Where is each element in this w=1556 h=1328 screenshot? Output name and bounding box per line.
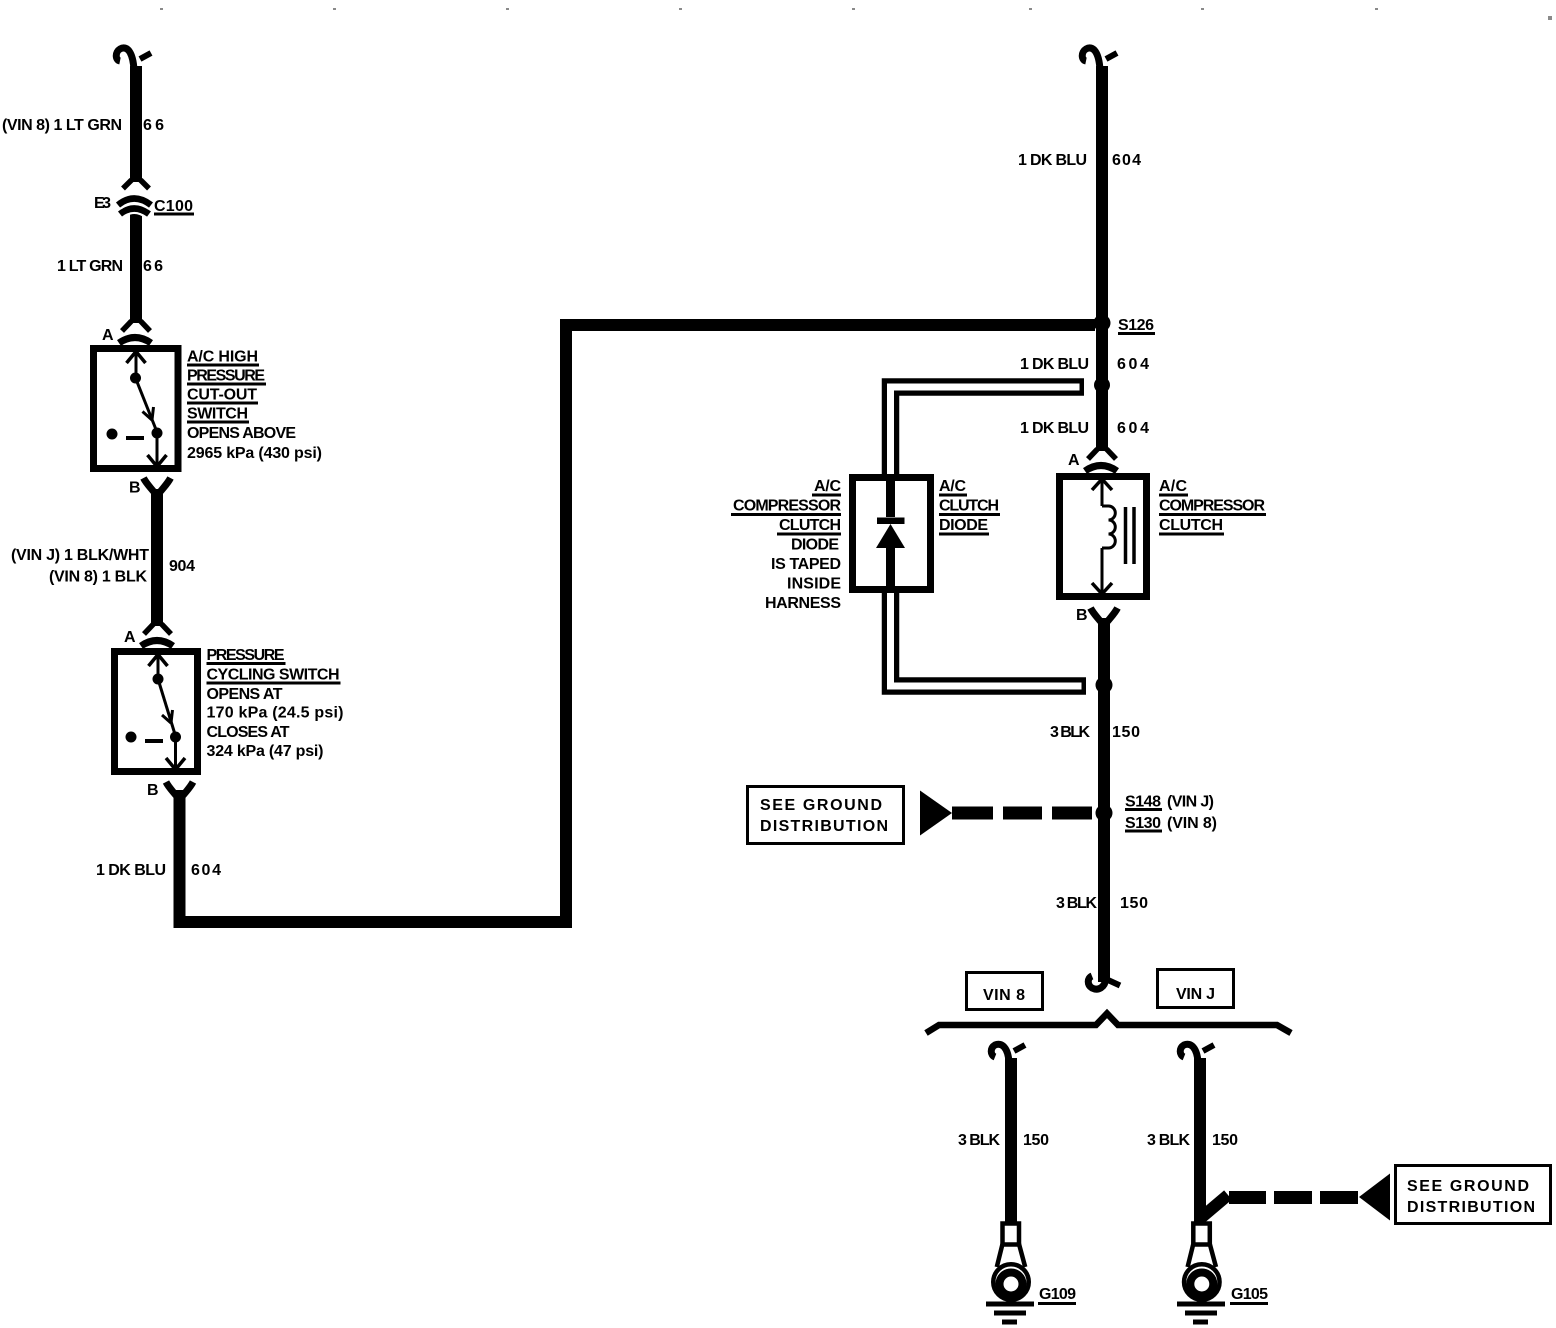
- svg-text:CLUTCH: CLUTCH: [779, 517, 841, 534]
- svg-text:604: 604: [1117, 420, 1149, 437]
- svg-text:3 BLK: 3 BLK: [1050, 724, 1090, 741]
- svg-text:(VIN 8) 1 LT GRN: (VIN 8) 1 LT GRN: [2, 117, 122, 134]
- svg-text:SEE GROUND: SEE GROUND: [760, 797, 882, 814]
- svg-text:OPENS ABOVE: OPENS ABOVE: [187, 425, 296, 442]
- svg-text:170 kPa (24.5 psi): 170 kPa (24.5 psi): [207, 705, 344, 722]
- svg-text:S148: S148: [1125, 794, 1161, 811]
- svg-text:1 DK BLU: 1 DK BLU: [1020, 356, 1089, 373]
- svg-text:(VIN J): (VIN J): [1167, 794, 1214, 811]
- svg-text:G109: G109: [1039, 1286, 1076, 1303]
- svg-text:COMPRESSOR: COMPRESSOR: [733, 498, 841, 515]
- svg-text:OPENS AT: OPENS AT: [207, 686, 283, 703]
- svg-text:CLUTCH: CLUTCH: [939, 498, 999, 515]
- svg-text:604: 604: [1117, 356, 1149, 373]
- svg-text:DIODE: DIODE: [939, 517, 988, 534]
- svg-text:A/C: A/C: [1159, 478, 1187, 495]
- svg-text:PRESSURE: PRESSURE: [187, 368, 265, 385]
- svg-text:CLUTCH: CLUTCH: [1159, 517, 1223, 534]
- svg-text:S126: S126: [1118, 317, 1154, 334]
- svg-text:3 BLK: 3 BLK: [1056, 895, 1097, 912]
- svg-text:A: A: [124, 629, 136, 646]
- svg-text:CLOSES AT: CLOSES AT: [207, 724, 290, 741]
- svg-text:(VIN 8): (VIN 8): [1167, 815, 1217, 832]
- svg-text:VIN 8: VIN 8: [983, 987, 1025, 1004]
- svg-text:150: 150: [1023, 1132, 1049, 1149]
- svg-text:A/C HIGH: A/C HIGH: [187, 349, 258, 366]
- svg-text:(VIN J) 1 BLK/WHT: (VIN J) 1 BLK/WHT: [11, 547, 149, 564]
- svg-text:PRESSURE: PRESSURE: [207, 647, 285, 664]
- svg-text:C100: C100: [154, 198, 193, 215]
- svg-text:604: 604: [191, 862, 221, 879]
- svg-text:3 BLK: 3 BLK: [1147, 1132, 1190, 1149]
- svg-text:604: 604: [1112, 152, 1141, 169]
- svg-text:3 BLK: 3 BLK: [958, 1132, 1000, 1149]
- svg-text:CUT-OUT: CUT-OUT: [187, 387, 257, 404]
- svg-text:DIODE: DIODE: [791, 537, 839, 554]
- svg-text:1 DK BLU: 1 DK BLU: [1018, 152, 1087, 169]
- svg-text:1 LT GRN: 1 LT GRN: [57, 258, 123, 275]
- svg-text:2965 kPa (430 psi): 2965 kPa (430 psi): [187, 445, 322, 462]
- svg-text:B: B: [147, 782, 159, 799]
- svg-text:SWITCH: SWITCH: [187, 406, 248, 423]
- svg-text:1 DK BLU: 1 DK BLU: [1020, 420, 1089, 437]
- svg-text:1 DK BLU: 1 DK BLU: [96, 862, 166, 879]
- svg-text:150: 150: [1212, 1132, 1238, 1149]
- svg-text:B: B: [1076, 607, 1088, 624]
- svg-text:A/C: A/C: [814, 478, 841, 495]
- svg-text:B: B: [129, 480, 141, 497]
- svg-text:COMPRESSOR: COMPRESSOR: [1159, 498, 1265, 515]
- svg-text:A: A: [1068, 452, 1080, 469]
- svg-text:(VIN 8) 1 BLK: (VIN 8) 1 BLK: [49, 569, 147, 586]
- svg-text:HARNESS: HARNESS: [765, 595, 841, 612]
- svg-text:324 kPa (47 psi): 324 kPa (47 psi): [207, 743, 324, 760]
- svg-text:S130: S130: [1125, 815, 1161, 832]
- svg-text:IS TAPED: IS TAPED: [771, 556, 841, 573]
- svg-text:904: 904: [169, 558, 195, 575]
- svg-text:VIN J: VIN J: [1176, 986, 1215, 1003]
- svg-text:150: 150: [1112, 724, 1140, 741]
- svg-text:DISTRIBUTION: DISTRIBUTION: [760, 818, 888, 835]
- svg-text:A: A: [102, 327, 114, 344]
- svg-text:E3: E3: [94, 195, 111, 212]
- svg-text:CYCLING SWITCH: CYCLING SWITCH: [207, 667, 340, 684]
- svg-text:A/C: A/C: [939, 478, 966, 495]
- svg-text:SEE GROUND: SEE GROUND: [1407, 1178, 1529, 1195]
- svg-text:INSIDE: INSIDE: [787, 576, 841, 593]
- svg-text:150: 150: [1120, 895, 1148, 912]
- svg-text:G105: G105: [1231, 1286, 1268, 1303]
- svg-text:DISTRIBUTION: DISTRIBUTION: [1407, 1199, 1535, 1216]
